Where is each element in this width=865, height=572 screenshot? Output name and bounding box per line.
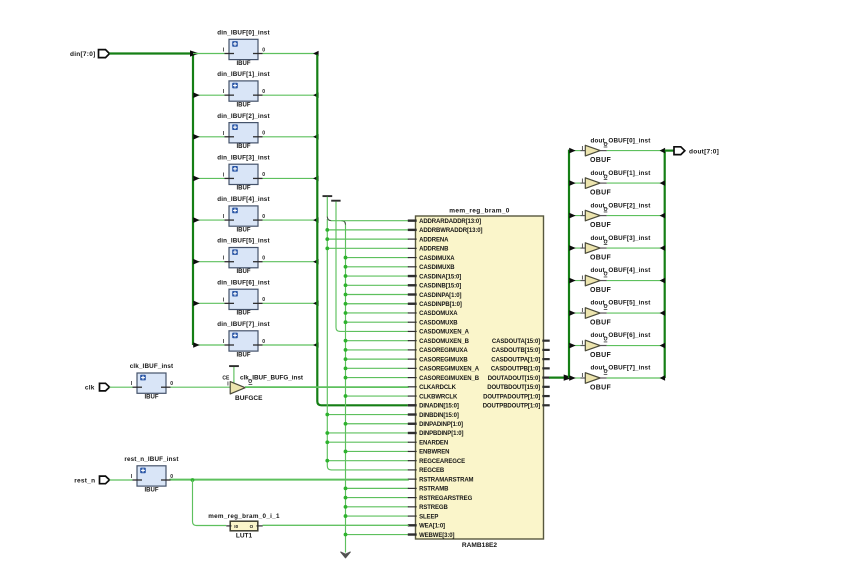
svg-text:clk_IBUF_BUFG_inst: clk_IBUF_BUFG_inst [240,375,304,382]
pin ENARDEN [408,441,417,443]
bus DOUTADOUT[15:0] to OBUF fanout [549,376,567,378]
wire to pin WEBWE[3:0] [346,534,409,536]
wire to OBUF[4] input [569,280,581,282]
svg-text:CASDINB[15:0]: CASDINB[15:0] [419,284,461,290]
pin WEBWE[3:0] [408,533,417,535]
pin DOUTBDOUT[15:0] [542,386,549,388]
bus dout collect vertical [664,151,666,378]
svg-text:I: I [131,474,133,480]
pin CASDOUTB[15:0] [542,349,549,351]
wire to pin CASDOMUXEN_A [340,330,409,332]
svg-text:DOUTADOUT[15:0]: DOUTADOUT[15:0] [488,376,540,382]
bus din[7:0] vertical (left fanout) [192,53,194,346]
svg-text:CLKBWRCLK: CLKBWRCLK [419,394,458,400]
svg-text:DINBDIN[15:0]: DINBDIN[15:0] [419,413,459,419]
svg-text:CASDINA[15:0]: CASDINA[15:0] [419,274,461,280]
power bar BUFGCE CE const [229,365,239,367]
pin ADDRENA [408,238,417,240]
svg-text:CASDINPB[1:0]: CASDINPB[1:0] [419,302,462,308]
svg-text:IBUF: IBUF [237,186,251,192]
svg-text:dout_OBUF[5]_inst: dout_OBUF[5]_inst [591,300,652,307]
pin ADDRBWRADDR[13:0] [408,229,417,231]
svg-text:din_IBUF[4]_inst: din_IBUF[4]_inst [217,196,270,203]
svg-text:I: I [131,381,133,387]
svg-text:0: 0 [262,47,265,53]
svg-text:ADDRBWRADDR[13:0]: ADDRBWRADDR[13:0] [419,228,482,234]
pin ADDRARDADDR[13:0] [408,219,417,221]
svg-text:ADDRENB: ADDRENB [419,247,449,253]
svg-text:RSTRAMB: RSTRAMB [419,487,449,493]
svg-text:DINPBDINP[1:0]: DINPBDINP[1:0] [419,431,463,437]
wire din[6] to IBUF input [193,302,225,304]
svg-text:dout_OBUF[3]_inst: dout_OBUF[3]_inst [591,235,652,242]
pin REGCEB [408,469,417,471]
svg-text:0: 0 [262,89,265,95]
wire to OBUF[3] input [569,247,581,249]
pin WEA[1:0] [408,524,417,526]
pin DOUTPBDOUTP[1:0] [542,404,549,406]
wire to pin RSTREGB [346,506,409,508]
svg-text:0: 0 [262,214,265,220]
wire to pin RSTRAMARSTRAM [170,478,409,480]
svg-text:din_IBUF[1]_inst: din_IBUF[1]_inst [217,71,270,78]
wire to pin ADDRENB [327,247,409,249]
buffer din_IBUF[0]_inst [229,39,258,59]
wire din_IBUF[4] output to bus [263,219,317,221]
power bar const V2 [331,200,340,202]
svg-text:din_IBUF[2]_inst: din_IBUF[2]_inst [217,113,270,120]
wire to pin RSTRAMB [346,487,409,489]
pin CASDINA[15:0] [408,275,417,277]
svg-text:I: I [223,48,225,54]
svg-text:OBUF: OBUF [590,222,611,229]
wire to pin CASOREGIMUXEN_B [346,377,409,379]
buffer dout_OBUF[2]_inst [585,210,600,221]
svg-text:CASDOUTPA[1:0]: CASDOUTPA[1:0] [491,357,540,363]
svg-text:IBUF: IBUF [237,311,251,317]
buffer dout_OBUF[5]_inst [585,308,600,319]
svg-text:DOUTBDOUT[15:0]: DOUTBDOUT[15:0] [487,385,540,391]
pin CASDOMUXB [408,321,417,323]
buffer din_IBUF[7]_inst [229,331,258,351]
svg-text:CASDOMUXEN_B: CASDOMUXEN_B [419,339,470,345]
svg-text:REGCEB: REGCEB [419,468,445,474]
wire din[1] to IBUF input [193,94,225,96]
wire rest_n_IBUF output [171,479,409,481]
wire to pin CASDOMUXA [346,312,409,314]
buffer rest_n_IBUF_inst [137,466,166,486]
bus dout_OBUF fanout vertical [568,150,570,378]
svg-text:rest_n_IBUF_inst: rest_n_IBUF_inst [124,456,179,463]
buffer dout_OBUF[1]_inst [585,178,600,189]
svg-text:mem_reg_bram_0: mem_reg_bram_0 [449,208,510,215]
pin CLKARDCLK [408,386,417,388]
svg-text:CASOREGIMUXEN_B: CASOREGIMUXEN_B [419,376,480,382]
wire din_IBUF[2] output to bus [263,136,317,138]
pin CASOREGIMUXEN_A [408,367,417,369]
pin CASDINPA[1:0] [408,293,417,295]
wire rest_n to IBUF [110,479,133,481]
svg-text:din_IBUF[3]_inst: din_IBUF[3]_inst [217,154,270,161]
svg-text:dout_OBUF[1]_inst: dout_OBUF[1]_inst [591,170,652,177]
wire to OBUF[6] input [569,345,581,347]
block mem_reg_bram_0 RAMB18E2 [416,216,544,539]
svg-text:I: I [223,131,225,137]
wire to pin CASDOMUXB [346,321,409,323]
svg-text:IBUF: IBUF [237,269,251,275]
wire OBUF[6] output to bus [607,345,664,347]
wire din[2] to IBUF input [193,136,225,138]
wire to pin ADDRARDADDR[13:0] [331,220,409,222]
bus din_IBUF[7:0] vertical collect [317,55,408,406]
wire to pin CLKARDCLK [245,386,409,388]
pin REGCEAREGCE [408,460,417,462]
svg-text:CASOREGIMUXA: CASOREGIMUXA [419,348,468,354]
wire to pin ADDRBWRADDR[13:0] [327,229,409,231]
svg-text:clk: clk [85,385,95,392]
wire to pin CASDIMUXA [346,257,409,259]
wire to pin DINPADINP[1:0] [346,423,409,425]
svg-text:ADDRENA: ADDRENA [419,237,449,243]
wire din[0] to IBUF input [193,53,225,55]
svg-text:ENBWREN: ENBWREN [419,450,449,456]
svg-text:CASDOMUXA: CASDOMUXA [419,311,458,317]
svg-text:I: I [223,339,225,345]
wire OBUF[5] output to bus [607,312,664,314]
svg-text:OBUF: OBUF [590,287,611,294]
svg-text:CASDIMUXA: CASDIMUXA [419,256,455,262]
block mem_reg_bram_0_i_1 LUT1 [230,521,258,531]
svg-text:RSTRAMARSTRAM: RSTRAMARSTRAM [419,477,473,483]
svg-text:I: I [223,89,225,95]
wire to pin SLEEP [346,515,409,517]
wire din_IBUF[0] output to bus [263,53,317,55]
pin CASDIMUXB [408,266,417,268]
buffer dout_OBUF[4]_inst [585,275,600,286]
wire to pin ENBWREN [346,450,409,452]
svg-text:CASDOMUXEN_A: CASDOMUXEN_A [419,330,470,336]
svg-text:OBUF: OBUF [590,352,611,359]
svg-text:OBUF: OBUF [590,320,611,327]
wire din[5] to IBUF input [193,261,225,263]
buffer din_IBUF[2]_inst [229,123,258,143]
svg-text:din_IBUF[5]_inst: din_IBUF[5]_inst [217,238,270,245]
svg-text:RSTREGARSTREG: RSTREGARSTREG [419,496,472,502]
pin CASOREGIMUXEN_B [408,377,417,379]
svg-text:0: 0 [262,256,265,262]
pin CLKBWRCLK [408,395,417,397]
svg-text:IBUF: IBUF [237,352,251,358]
pin RSTRAMARSTRAM [408,478,417,480]
wire CE [233,367,235,383]
wire to pin REGCEB [331,469,409,471]
wire to OBUF[2] input [569,215,581,217]
pin DINADIN[15:0] [408,404,417,406]
wire clk_IBUF to BUFGCE [171,386,231,388]
wire to OBUF[7] input [569,377,581,379]
buffer din_IBUF[3]_inst [229,164,258,184]
svg-text:CASDINPA[1:0]: CASDINPA[1:0] [419,293,461,299]
svg-text:CASDOMUXB: CASDOMUXB [419,320,458,326]
svg-text:CASDOUTB[15:0]: CASDOUTB[15:0] [491,348,540,354]
svg-text:DINPADINP[1:0]: DINPADINP[1:0] [419,422,463,428]
pin CASDOUTA[15:0] [542,340,549,342]
net V3 vertical (gnd) [342,221,346,553]
wire to pin DINPBDINP[1:0] [327,432,409,434]
svg-text:0: 0 [262,172,265,178]
pin RSTREGB [408,506,417,508]
pin DINPBDINP[1:0] [408,432,417,434]
svg-text:IBUF: IBUF [237,227,251,233]
node rest_n_IBUF branch [191,478,195,482]
wire din_IBUF[3] output to bus [263,177,317,179]
svg-text:CASDOUTPB[1:0]: CASDOUTPB[1:0] [491,367,540,373]
svg-text:CASOREGIMUXEN_A: CASOREGIMUXEN_A [419,367,480,373]
wire to pin ENARDEN [327,441,409,443]
wire to pin CASOREGIMUXB [346,358,409,360]
wire dout bus to port [665,150,674,152]
pin CASDOMUXEN_B [408,340,417,342]
wire to pin CASDIMUXB [346,266,409,268]
svg-text:O: O [250,524,254,529]
svg-text:dout_OBUF[2]_inst: dout_OBUF[2]_inst [591,202,652,209]
wire to pin CASOREGIMUXA [346,349,409,351]
svg-text:RAMB18E2: RAMB18E2 [462,542,498,549]
wire to pin CASDINA[15:0] [346,275,409,277]
wire OBUF[3] output to bus [607,247,664,249]
svg-text:0: 0 [262,131,265,137]
wire OBUF[4] output to bus [607,280,664,282]
svg-text:LUT1: LUT1 [236,532,253,539]
wire din_IBUF[1] output to bus [263,94,317,96]
pin CASOREGIMUXB [408,358,417,360]
buffer din_IBUF[1]_inst [229,81,258,101]
port dout[7:0] [674,147,685,155]
buffer dout_OBUF[6]_inst [585,340,600,351]
buffer din_IBUF[6]_inst [229,289,258,309]
wire to pin WEA[1:0] [263,524,409,526]
wire BUFGCE output to CLKARDCLK [245,386,409,388]
wire OBUF[7] output to bus [607,377,664,379]
wire din_IBUF[6] output to bus [263,302,317,304]
pin DINPADINP[1:0] [408,423,417,425]
wire OBUF[2] output to bus [607,215,664,217]
wire din_IBUF[5] output to bus [263,261,317,263]
svg-text:clk_IBUF_inst: clk_IBUF_inst [130,363,174,370]
wire din[7] to IBUF input [193,344,225,346]
wire to pin CASDINPA[1:0] [346,294,409,296]
pin CASDINPB[1:0] [408,303,417,305]
pin SLEEP [408,515,417,517]
pin CASDOMUXEN_A [408,330,417,332]
wire to pin CASDINPB[1:0] [346,303,409,305]
pin CASDOUTPA[1:0] [542,358,549,360]
svg-text:0: 0 [262,297,265,303]
pin RSTRAMB [408,487,417,489]
pin DOUTPADOUTP[1:0] [542,395,549,397]
wire to pin CASDINB[15:0] [346,284,409,286]
wire OBUF[1] output to bus [607,182,664,184]
buffer dout_OBUF[3]_inst [585,243,600,254]
svg-text:dout_OBUF[6]_inst: dout_OBUF[6]_inst [591,332,652,339]
svg-text:I: I [223,297,225,303]
svg-text:OBUF: OBUF [590,255,611,262]
wire to pin CLKBWRCLK [346,395,409,397]
svg-text:CASOREGIMUXB: CASOREGIMUXB [419,357,468,363]
pin CASDINB[15:0] [408,284,417,286]
svg-text:I: I [223,172,225,178]
pin CASDOUTPB[1:0] [542,367,549,369]
wire clk to IBUF [110,386,133,388]
svg-text:ADDRARDADDR[13:0]: ADDRARDADDR[13:0] [419,219,481,225]
svg-text:REGCEAREGCE: REGCEAREGCE [419,459,465,465]
svg-text:I: I [223,214,225,220]
svg-text:din_IBUF[6]_inst: din_IBUF[6]_inst [217,279,270,286]
pin CASDIMUXA [408,257,417,259]
svg-text:DOUTPBDOUTP[1:0]: DOUTPBDOUTP[1:0] [483,404,541,410]
svg-text:OBUF: OBUF [590,190,611,197]
svg-text:rest_n: rest_n [74,477,95,484]
buffer dout_OBUF[7]_inst [585,373,600,384]
svg-text:OBUF: OBUF [590,385,611,392]
svg-text:dout_OBUF[4]_inst: dout_OBUF[4]_inst [591,267,652,274]
svg-text:IBUF: IBUF [145,395,159,401]
svg-text:0: 0 [262,339,265,345]
wire din[7:0] port to bus [110,52,194,54]
ground symbol [341,552,351,558]
svg-text:din_IBUF[7]_inst: din_IBUF[7]_inst [217,321,270,328]
svg-text:0: 0 [170,381,173,387]
svg-text:WEBWE[3:0]: WEBWE[3:0] [419,533,454,539]
svg-text:dout_OBUF[7]_inst: dout_OBUF[7]_inst [591,365,652,372]
wire to pin ADDRENA [327,238,409,240]
svg-text:din_IBUF[0]_inst: din_IBUF[0]_inst [217,30,270,37]
svg-text:0: 0 [170,474,173,480]
power bar const V1 [323,195,333,197]
svg-text:DINADIN[15:0]: DINADIN[15:0] [419,404,459,410]
buffer dout_OBUF[0]_inst [585,145,600,156]
svg-text:WEA[1:0]: WEA[1:0] [419,524,445,530]
svg-text:DOUTPADOUTP[1:0]: DOUTPADOUTP[1:0] [483,394,540,400]
wire OBUF[0] output to bus [607,150,664,152]
pin ENBWREN [408,450,417,452]
buffer din_IBUF[4]_inst [229,206,258,226]
svg-text:dout[7:0]: dout[7:0] [689,148,719,155]
svg-text:CLKARDCLK: CLKARDCLK [419,385,457,391]
pin CASDOMUXA [408,312,417,314]
svg-text:OBUF: OBUF [590,157,611,164]
pin CASOREGIMUXA [408,349,417,351]
svg-text:BUFGCE: BUFGCE [235,395,263,402]
wire LUT1 output to WEA [263,524,409,526]
wire to pin REGCEAREGCE [327,460,409,462]
pin ADDRENB [408,247,417,249]
wire to pin CASDOMUXEN_B [346,340,409,342]
wire din[3] to IBUF input [193,177,225,179]
pin DINBDIN[15:0] [408,413,417,415]
wire to OBUF[0] input [569,150,581,152]
svg-text:IBUF: IBUF [237,102,251,108]
svg-text:SLEEP: SLEEP [419,514,438,520]
svg-text:dout_OBUF[0]_inst: dout_OBUF[0]_inst [591,137,652,144]
svg-text:I: I [223,256,225,262]
pin RSTREGARSTREG [408,497,417,499]
buffer clk_IBUF_inst [137,373,166,393]
svg-text:mem_reg_bram_0_i_1: mem_reg_bram_0_i_1 [208,513,280,520]
wire to pin RSTREGARSTREG [346,497,409,499]
wire to pin CASOREGIMUXEN_A [346,367,409,369]
wire branch to LUT1 [193,480,227,526]
buffer clk_IBUF_BUFG_inst BUFGCE [230,382,245,394]
svg-text:RSTREGB: RSTREGB [419,505,448,511]
wire din_IBUF[7] output to bus [263,344,317,346]
svg-text:IBUF: IBUF [237,61,251,67]
svg-text:CASDOUTA[15:0]: CASDOUTA[15:0] [492,339,540,345]
svg-text:I0: I0 [234,524,238,529]
wire to pin DINBDIN[15:0] [327,414,409,416]
net V1 vertical [327,197,331,221]
wire din[4] to IBUF input [193,219,225,221]
wire to OBUF[5] input [569,312,581,314]
svg-text:din[7:0]: din[7:0] [70,51,95,58]
net V2 vertical [336,202,340,332]
wire to OBUF[1] input [569,182,581,184]
svg-text:ENARDEN: ENARDEN [419,440,448,446]
buffer din_IBUF[5]_inst [229,248,258,268]
svg-text:I: I [227,381,229,387]
svg-text:CE: CE [222,376,230,382]
pin DOUTADOUT[15:0] [542,376,549,378]
svg-text:IBUF: IBUF [145,487,159,493]
svg-text:IBUF: IBUF [237,144,251,150]
svg-text:CASDIMUXB: CASDIMUXB [419,265,455,271]
